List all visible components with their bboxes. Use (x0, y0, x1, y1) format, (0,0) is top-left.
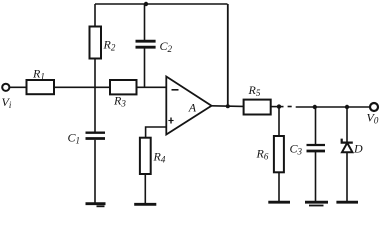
wire R5 to node B (271, 106, 284, 108)
svg-text:D: D (353, 142, 363, 156)
wire R4 bottom lead to ground (144, 174, 146, 203)
svg-text:A: A (188, 101, 197, 115)
terminal Vi (2, 84, 9, 91)
node top junction dot (144, 2, 148, 6)
diode D (zener) (342, 139, 353, 143)
wire D top lead (346, 107, 348, 143)
wire Vi to R1 (10, 86, 27, 88)
wire feedback drop (227, 4, 229, 106)
ground (R6) (268, 201, 290, 204)
resistor R3 (110, 80, 137, 94)
svg-text:V0: V0 (367, 111, 379, 126)
svg-text:R4: R4 (153, 150, 166, 165)
resistor R1 (27, 80, 55, 94)
svg-text:R3: R3 (113, 94, 126, 109)
resistor R5 (244, 100, 271, 115)
svg-text:C1: C1 (68, 131, 81, 146)
resistor R2 (90, 27, 102, 59)
svg-text:R5: R5 (248, 83, 261, 98)
node D junction dot (345, 105, 349, 109)
wire C2 top lead (144, 4, 146, 40)
wire C3 bottom lead (315, 152, 317, 201)
resistor R6 (274, 136, 284, 172)
node R6 junction dot (277, 104, 281, 108)
wire C1 top lead from node (94, 87, 96, 132)
wire dashed break (288, 106, 292, 108)
terminal Vo (370, 103, 378, 111)
svg-text:R1: R1 (32, 67, 45, 82)
op-amp U A (166, 77, 211, 135)
ground (C1) (86, 202, 106, 205)
capacitor C1 (86, 131, 106, 133)
wire R1 to node A (54, 86, 110, 88)
wire C1 bottom lead to ground (94, 140, 96, 203)
capacitor C3 (307, 144, 326, 146)
svg-text:R2: R2 (103, 38, 116, 53)
wire op-amp non-inverting input lead (146, 127, 167, 138)
node C3 junction dot (313, 105, 317, 109)
wire R6 top lead (278, 107, 280, 136)
wire R2 bottom lead to main rail (94, 59, 96, 88)
wire C3 top lead (315, 107, 317, 144)
svg-text:Vi: Vi (2, 95, 12, 110)
svg-text:R6: R6 (256, 147, 269, 162)
wire output rail (296, 106, 370, 108)
ground (C3) (305, 201, 328, 204)
wire op-amp output (212, 105, 244, 108)
capacitor C2 (136, 40, 156, 43)
svg-text:C2: C2 (160, 39, 173, 54)
wire D bottom lead (346, 152, 348, 201)
resistor R4 (140, 138, 151, 174)
wire top feedback rail (95, 3, 228, 5)
ground (D) (336, 201, 358, 204)
svg-text:C3: C3 (290, 142, 303, 157)
wire R6 bottom lead (278, 172, 280, 201)
wire R3 to op-amp inverting input (137, 86, 167, 88)
ground (R4) (134, 203, 156, 206)
wire C2 bottom lead to main rail (144, 49, 146, 88)
wire R2 top lead (94, 4, 96, 27)
node feedback junction (226, 104, 230, 108)
